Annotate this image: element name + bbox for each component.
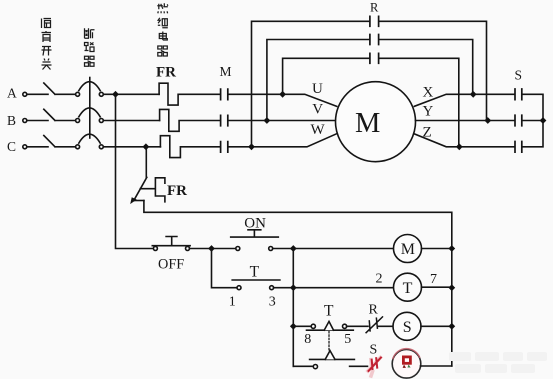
breaker QF pole C [76, 134, 104, 149]
contactor R contact pole 2 (loop2) [371, 33, 378, 46]
label 热继电器 (thermal relay) [157, 3, 168, 56]
label 断路器 (circuit breaker) [85, 28, 95, 66]
wire: A up to R loop3 [283, 58, 459, 147]
svg-text:7: 7 [430, 272, 437, 287]
wire: M coil to right rail [422, 248, 452, 250]
coil M [394, 235, 422, 263]
wire: R coil to right rail [421, 365, 452, 367]
wire: FR contact to right rail [144, 201, 452, 367]
switch QS pole C [27, 136, 76, 147]
wire: T contact to T coil [274, 287, 394, 289]
svg-text:2: 2 [376, 272, 383, 287]
contactor S contact pole Z [515, 142, 522, 153]
watermark [449, 352, 547, 373]
junction dot A [280, 92, 285, 97]
wire: S coil to right rail [421, 325, 452, 327]
wire: B up to R loop2 [267, 40, 473, 121]
svg-text:1: 1 [229, 294, 236, 309]
contactor M contact pole A [221, 89, 228, 100]
wire: R contact to S coil [379, 325, 394, 327]
wire: control left rail from phase A [116, 94, 154, 248]
wire: C up to R loop1 [252, 21, 487, 147]
junction dot star point [540, 118, 545, 123]
heater FR pole B [160, 109, 220, 131]
svg-text:X: X [423, 84, 434, 100]
junction dot rail at T row [449, 285, 454, 290]
terminal B [23, 119, 27, 123]
svg-text:W: W [311, 122, 326, 138]
svg-text:OFF: OFF [158, 257, 184, 273]
svg-text:FR: FR [167, 183, 187, 199]
svg-text:R: R [370, 0, 379, 14]
svg-text:S: S [370, 342, 378, 357]
coil R logo square [403, 357, 410, 363]
junction dot Z [457, 144, 462, 149]
contactor S contact pole X [515, 89, 522, 100]
wire: timed contact to R contact [347, 325, 368, 327]
wire: motor X to S contact [414, 94, 514, 106]
svg-text:FR: FR [156, 65, 176, 81]
timed contact T blade [307, 329, 354, 331]
contactor M contact pole B [221, 115, 228, 126]
junction dot C [249, 144, 254, 149]
svg-text:A: A [7, 85, 17, 100]
wire: motor Z to S contact [414, 134, 514, 147]
junction dot after ON [291, 246, 296, 251]
relay contact T self-hold blade [232, 279, 280, 281]
svg-text:M: M [220, 64, 232, 79]
coil T [394, 273, 422, 301]
relay contact R NC [366, 317, 382, 333]
junction dot Y [485, 118, 490, 123]
svg-text:T: T [250, 263, 260, 280]
svg-text:ON: ON [244, 216, 266, 232]
contactor S contact pole Y [515, 115, 522, 126]
timed contact T2 terminal circle [313, 365, 317, 369]
wire A: breaker to FR [103, 93, 159, 95]
svg-text:M: M [401, 241, 415, 258]
breaker QF pole A [76, 82, 104, 97]
svg-text:V: V [312, 101, 323, 117]
wire: T2 to red S contact [350, 365, 368, 367]
wire: ON to M coil [273, 248, 394, 250]
timed contact T2 blade [310, 358, 355, 360]
svg-text:T: T [403, 280, 413, 297]
wire C: M contact to motor W [228, 134, 336, 147]
mechanical link dashed [328, 332, 330, 351]
svg-text:T: T [324, 303, 334, 320]
junction dot rail at S row [449, 324, 454, 329]
junction dot mid rail T row [291, 285, 296, 290]
button ON terminal circles [236, 247, 240, 251]
svg-text:Y: Y [423, 104, 434, 120]
motor M1 circle [336, 82, 416, 162]
timed contact T2 delay triangle [325, 351, 335, 360]
svg-text:M: M [355, 108, 380, 139]
wire: T coil to right rail [422, 286, 452, 288]
svg-text:8: 8 [304, 332, 311, 347]
svg-text:3: 3 [269, 294, 276, 309]
switch QS pole B [27, 109, 76, 120]
breaker linkage [89, 78, 91, 139]
wire B: breaker to FR [103, 120, 159, 122]
coil R (red) [392, 350, 421, 379]
switch QS pole A [27, 83, 76, 94]
wire: mid rail vertical [292, 249, 294, 367]
wire: branch down from OFF-ON junction [212, 249, 237, 288]
node: A to control rail [113, 92, 118, 97]
wire C: breaker to FR [103, 146, 160, 148]
node: C to FR contact [143, 144, 148, 149]
contactor R contact pole 1 (loop1) [371, 15, 378, 28]
heater FR pole C [160, 136, 220, 158]
junction dot rail at M row [449, 246, 454, 251]
coil S [393, 312, 421, 340]
svg-text:U: U [312, 81, 323, 97]
junction dot after OFF [209, 246, 214, 251]
timed contact T (8-5) circles [311, 324, 315, 328]
wire: mid rail corner to R row [293, 365, 313, 367]
heater FR pole A [159, 83, 220, 105]
button ON blade and plunger [231, 230, 279, 237]
wire: OFF to ON [190, 248, 236, 250]
relay contact S NC (red) [368, 358, 380, 377]
svg-text:R: R [369, 303, 379, 318]
contactor R contact pole 3 (loop3) [371, 52, 378, 65]
FR trip actuator bracket [140, 178, 165, 202]
wire: motor Y to S contact [416, 120, 515, 122]
wire A: M contact to motor U [228, 94, 337, 106]
label 隔离开关 (isolation switch) [42, 19, 52, 70]
FR trip contact blade [134, 177, 147, 200]
relay contact T self-hold circles [237, 286, 241, 290]
button OFF blade and plunger [152, 237, 190, 246]
junction dot X [471, 92, 476, 97]
terminal C [23, 145, 27, 149]
timed contact T delay triangle [324, 321, 333, 330]
wire: mid rail to T timed contact [293, 325, 311, 327]
button OFF terminal circles [153, 247, 157, 251]
wire B: M contact to motor V [228, 120, 336, 122]
svg-text:B: B [7, 113, 16, 128]
svg-text:S: S [515, 68, 523, 83]
svg-text:C: C [7, 139, 16, 154]
terminal A [23, 92, 27, 96]
wire: S star bridge right rail [522, 94, 543, 147]
junction dot B [264, 118, 269, 123]
FR trip contact foot [133, 200, 144, 202]
wire: C drop to FR trip contact [145, 147, 147, 178]
svg-text:S: S [403, 319, 412, 336]
svg-text:5: 5 [344, 332, 351, 347]
junction dot mid rail S row [291, 324, 296, 329]
contactor M contact pole C [221, 142, 228, 153]
breaker QF pole B [76, 108, 104, 123]
